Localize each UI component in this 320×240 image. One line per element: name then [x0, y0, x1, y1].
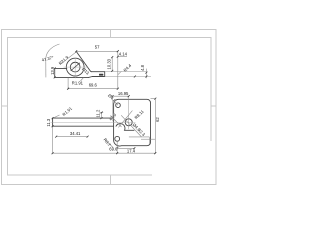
svg-text:16.95: 16.95: [118, 91, 129, 96]
svg-text:4.8: 4.8: [140, 64, 145, 70]
svg-text:34.41: 34.41: [70, 131, 81, 136]
svg-text:10.33: 10.33: [107, 58, 112, 69]
svg-text:17.4: 17.4: [127, 148, 136, 153]
svg-text:R1.91: R1.91: [72, 81, 84, 86]
svg-text:11.2: 11.2: [96, 109, 101, 118]
svg-text:11.3: 11.3: [46, 118, 51, 127]
svg-text:62: 62: [155, 117, 160, 122]
svg-text:69.6: 69.6: [109, 147, 118, 152]
svg-text:4.14: 4.14: [119, 51, 128, 56]
svg-text:57: 57: [95, 45, 100, 50]
svg-text:13.9: 13.9: [50, 66, 55, 75]
svg-text:69.6: 69.6: [89, 83, 98, 88]
